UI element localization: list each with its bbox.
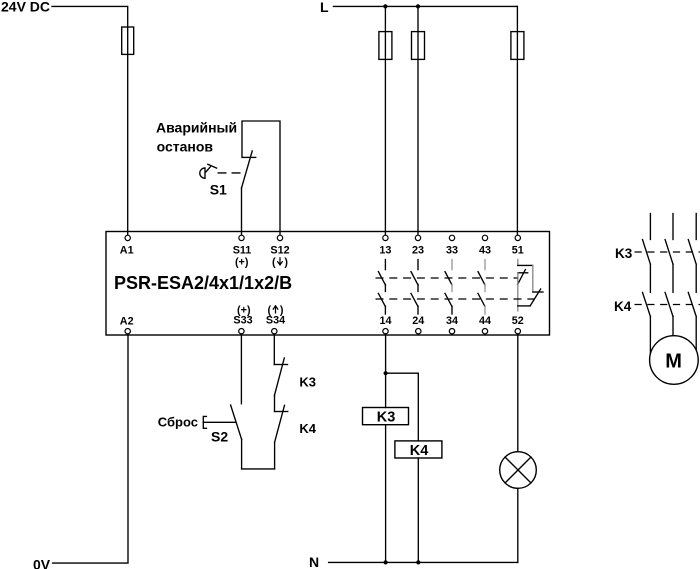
svg-text:44: 44 [479, 315, 491, 327]
junction to K4 branch [384, 371, 388, 375]
svg-text:A1: A1 [120, 245, 134, 257]
S1 actuator dashed link [218, 172, 241, 174]
svg-text:13: 13 [379, 245, 391, 257]
svg-text:K3: K3 [377, 410, 396, 426]
aux contact K3 NC in reset chain [274, 358, 287, 412]
contactor K4 main contacts 3-pole [643, 292, 697, 316]
terminal A2 [125, 329, 130, 334]
wires from K4 poles to motor [650, 317, 696, 354]
svg-text:51: 51 [512, 245, 524, 257]
svg-text:S2: S2 [211, 429, 228, 445]
S1 mushroom actuator [200, 164, 217, 178]
terminal 13 [383, 235, 388, 240]
S2 actuator link [203, 421, 235, 423]
terminal S12 [277, 235, 282, 240]
wire lamp to N [517, 488, 519, 562]
relay box PSR-ESA2 outline [106, 232, 550, 336]
svg-text:33: 33 [446, 245, 458, 257]
wire S33 down to S2 [240, 334, 242, 404]
svg-text:(: ( [267, 305, 271, 317]
terminal 34 [449, 329, 454, 334]
wire S34 down [273, 334, 275, 365]
svg-text:43: 43 [479, 245, 491, 257]
wire 24V DC rail to A1 [52, 6, 128, 235]
wire L drop to 51 [516, 6, 518, 235]
svg-text:): ) [280, 305, 284, 317]
fuse F1 [122, 27, 134, 54]
wire L drop to 23 [417, 6, 419, 235]
K3 mechanical dashed link [635, 251, 700, 253]
relay contact 33-34 [445, 260, 452, 315]
aux contact K4 NC in reset chain [275, 405, 288, 469]
fuse F3 [412, 32, 425, 60]
wire 52 to lamp [517, 334, 519, 452]
terminal 14 [383, 329, 388, 334]
svg-text:останов: останов [157, 138, 214, 154]
terminal 44 [482, 329, 487, 334]
svg-text:24: 24 [412, 315, 424, 327]
junction on N at K3 [384, 560, 388, 564]
svg-text:52: 52 [512, 315, 524, 327]
contactor K3 main contacts 3-pole [643, 214, 697, 265]
wire joining S2 and aux chain [242, 468, 275, 470]
terminal S33 [239, 329, 244, 334]
terminal 43 [482, 235, 487, 240]
relay contact 13-14 [378, 260, 385, 315]
terminal S34 [272, 329, 277, 334]
svg-text:34: 34 [446, 315, 458, 327]
svg-text:S1: S1 [210, 182, 227, 198]
K4 mechanical dashed link [635, 304, 700, 306]
svg-text:(+): (+) [237, 305, 251, 317]
terminal 23 [415, 235, 420, 240]
wires between K3 and K4 poles [650, 264, 696, 292]
svg-text:K4: K4 [410, 443, 429, 459]
terminal 52 [515, 329, 520, 334]
terminal 33 [449, 235, 454, 240]
relay mechanical link dashed line upper [376, 277, 518, 279]
junction on N at K4 [416, 560, 420, 564]
motor M [650, 336, 699, 385]
relay contact 43-44 [478, 260, 485, 315]
svg-text:Сброс: Сброс [158, 415, 198, 430]
junction on L at 23 drop [416, 4, 420, 8]
svg-text:K4: K4 [299, 421, 316, 436]
svg-text:K4: K4 [614, 299, 632, 314]
relay mechanical link dashed line lower [376, 298, 536, 300]
svg-text:A2: A2 [120, 316, 134, 328]
relay contact 23-24 [411, 260, 418, 315]
emergency stop switch S1 NC contact [242, 151, 256, 235]
svg-text:(: ( [272, 257, 276, 269]
svg-text:M: M [665, 351, 682, 373]
svg-text:S11: S11 [233, 245, 252, 257]
fuse F2 [379, 32, 392, 60]
svg-text:0V: 0V [33, 557, 51, 569]
wire branch to K4 coil [386, 373, 419, 441]
svg-text:N: N [309, 554, 319, 569]
wire N rail [329, 561, 518, 563]
wire 14 to K3 coil [385, 334, 387, 408]
fuse F4 [511, 32, 524, 60]
svg-text:K3: K3 [615, 246, 633, 261]
wire K4 coil to N [417, 458, 419, 562]
svg-text:23: 23 [412, 245, 424, 257]
contactor coil K4 [395, 441, 442, 458]
svg-text:L: L [320, 0, 329, 15]
svg-text:(+): (+) [235, 257, 249, 269]
wire S11 to S12 loop bracket [242, 121, 280, 235]
terminal 51 [515, 235, 520, 240]
relay contact 51-52 [518, 260, 543, 311]
svg-text:14: 14 [379, 315, 391, 327]
wire K3 coil to N [385, 425, 387, 563]
terminal S11 [239, 235, 244, 240]
svg-text:24V DC: 24V DC [1, 0, 50, 15]
S2 actuator plunger [203, 416, 206, 428]
wire L drop to 13 [384, 6, 386, 235]
lamp H1 [500, 452, 537, 489]
junction on L at 13 drop [383, 4, 387, 8]
terminal A1 [125, 235, 130, 240]
svg-text:S12: S12 [270, 245, 289, 257]
svg-text:PSR-ESA2/4x1/1x2/B: PSR-ESA2/4x1/1x2/B [114, 273, 292, 293]
wire 0V rail to A2 [53, 334, 128, 563]
wire L rail [333, 5, 517, 7]
svg-text:): ) [284, 257, 288, 269]
svg-text:Аварийный: Аварийный [156, 120, 237, 136]
reset button S2 NO contact [231, 405, 242, 469]
terminal 24 [416, 329, 421, 334]
contactor coil K3 [363, 408, 409, 425]
svg-text:K3: K3 [299, 375, 316, 390]
